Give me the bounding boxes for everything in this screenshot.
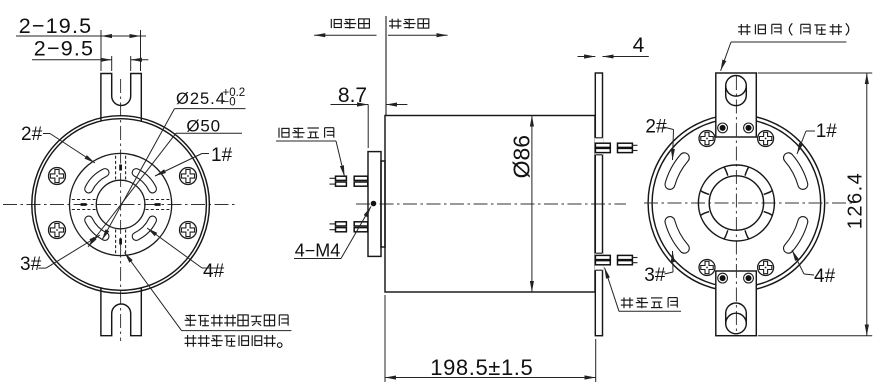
dimension 198.5 line (385, 377, 596, 379)
svg-text:4#: 4# (814, 266, 836, 287)
dimension D86 (509, 135, 535, 178)
centerline horizontal (left view) (3, 204, 238, 206)
rivet dots bottom (right view) (718, 273, 728, 283)
stator side arrow (388, 34, 448, 36)
rotor side / stator side divider line (385, 16, 387, 116)
rotor flange plate (368, 152, 381, 257)
svg-text:198.5±1.5: 198.5±1.5 (430, 355, 533, 380)
tab keyhole top (right view) (726, 76, 747, 97)
svg-text:8.7: 8.7 (338, 84, 367, 107)
M4 screw point on rotor flange (371, 201, 377, 207)
centerline horizontal (right view) (644, 202, 852, 204)
anti-rotation tab bar top (right view) (716, 73, 757, 137)
svg-text:Ø50: Ø50 (186, 116, 221, 135)
center hub outer ring (right view) (698, 165, 774, 241)
svg-text:3#: 3# (644, 265, 666, 286)
svg-text:1#: 1# (211, 145, 233, 166)
arc slot 4# lower-right (right view) (788, 222, 802, 249)
svg-text:2−19.5: 2−19.5 (19, 14, 93, 38)
rotor side label (331, 19, 369, 29)
phillips screw upper-right (right view) (758, 131, 774, 147)
arc slot 1# upper-right (right view) (788, 158, 802, 185)
svg-text:Ø25.4: Ø25.4 (176, 90, 226, 108)
phillips screw upper-right (left view) (180, 168, 197, 185)
extension lines 198.5 (384, 295, 386, 382)
center bore circle (right view) (709, 176, 763, 230)
hidden M4 screw hole right (left view) (146, 199, 172, 201)
dimension 8.7 lines (331, 104, 369, 106)
phillips screw lower-right (right view) (758, 260, 774, 276)
anti-rotation tab bar bottom (right view) (716, 271, 757, 336)
phillips screw upper-left (left view) (49, 168, 66, 185)
arc slot 2# upper-left (left view) (89, 173, 105, 189)
tab keyhole bottom (right view) (726, 313, 747, 334)
bore key bottom (right view) (723, 230, 727, 238)
leader D50 (176, 132, 242, 134)
arc slot 4# lower-right (left view) (136, 220, 152, 236)
outer flange circle (left view) (32, 116, 210, 294)
extension line 8.7 (367, 105, 369, 149)
bore key top (right view) (745, 167, 749, 175)
bottom mounting tab with U slot (left view) (101, 288, 141, 336)
top mounting tab with U slot (left view) (101, 74, 141, 122)
phillips screw lower-left (left view) (49, 222, 66, 239)
rotor flange step (381, 161, 385, 247)
svg-text:3#: 3# (20, 254, 42, 275)
stator body cylinder rectangle (385, 116, 595, 293)
note text: fix slip ring with four screws on rotating shaft (185, 315, 289, 327)
centerline vertical (left view) (120, 79, 122, 341)
hidden M4 screw hole top (left view) (115, 153, 117, 179)
bore key right (right view) (764, 212, 772, 216)
dimension 126.4 (845, 172, 867, 230)
svg-text:1#: 1# (816, 121, 838, 142)
svg-text:126.4: 126.4 (845, 172, 867, 230)
stator lead wires bottom group (595, 255, 610, 259)
leader D25.4 (175, 108, 246, 110)
inner circle (right view) (652, 119, 821, 288)
rotor side arrow (314, 34, 376, 36)
label anti-rotation tab (adjustable) (738, 23, 849, 35)
stator flange bar with anti-rotation tab (595, 73, 602, 336)
hidden M4 screw hole bottom (left view) (125, 230, 127, 256)
arc slot 1# upper-right (left view) (136, 173, 152, 189)
hidden M4 screw hole left (left view) (70, 209, 96, 211)
centerline horizontal (middle view) (356, 203, 626, 205)
label stator lead wires (621, 297, 678, 308)
rotor lead wires top group (330, 177, 337, 179)
extension lines 2-19.5 (100, 30, 102, 71)
arc slot 2# upper-left (right view) (670, 158, 684, 185)
bolt circle D50 (left view) (70, 153, 172, 255)
extension lines 2-9.5 (111, 56, 113, 71)
arc slot 3# lower-left (left view) (89, 220, 105, 236)
svg-text:4−M4: 4−M4 (295, 240, 341, 260)
rivet dots top (right view) (718, 123, 728, 133)
bore circle D25.4 (left view) (96, 180, 145, 229)
stator lead wires top group (595, 143, 610, 147)
svg-text:4#: 4# (203, 261, 225, 282)
svg-text:2−9.5: 2−9.5 (34, 37, 94, 61)
outer flange circle (right view) (648, 115, 825, 292)
dimension 2-19.5 line (16, 35, 146, 37)
svg-text:Ø86: Ø86 (509, 135, 535, 178)
arc slot 3# lower-left (right view) (670, 222, 684, 249)
label rotor lead wires (279, 128, 334, 139)
leader 4# (left view) (202, 267, 222, 269)
rotor lead wires bottom group (330, 223, 337, 225)
svg-text:2#: 2# (21, 124, 43, 145)
leader 3# (left view) (38, 267, 46, 269)
bore key left (right view) (701, 190, 709, 194)
inner flange circle (left view) (35, 119, 207, 291)
phillips screw upper-left (right view) (699, 131, 715, 147)
phillips screw lower-left (right view) (699, 260, 715, 276)
centerline vertical (right view) (735, 76, 737, 332)
svg-text:4: 4 (633, 34, 645, 57)
note underline + leader (182, 330, 292, 332)
stator side label (389, 19, 429, 29)
extension lines 126.4 (758, 72, 873, 74)
leader 1# (left view) (202, 153, 209, 155)
leader 2# (left view) (43, 133, 50, 135)
phillips screw lower-right (left view) (180, 222, 197, 239)
dimension 2-9.5 line (32, 59, 112, 61)
svg-text:−0: −0 (223, 97, 236, 109)
